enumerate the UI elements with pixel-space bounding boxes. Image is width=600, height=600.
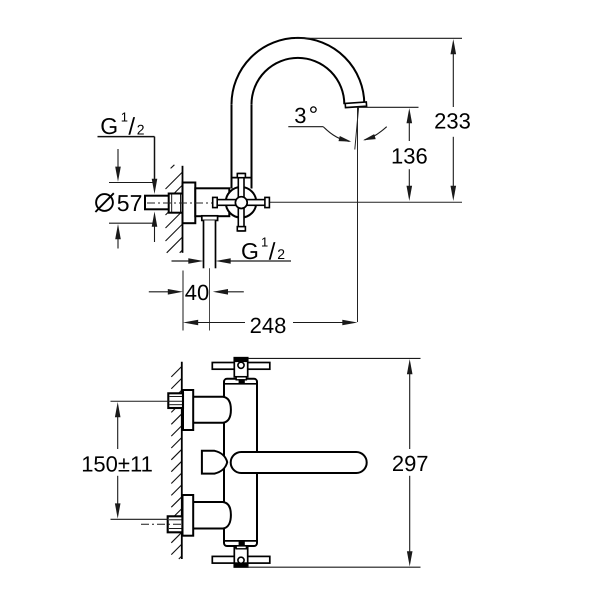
dimension 150+-11	[81, 402, 168, 519]
dimension 40	[149, 271, 244, 331]
svg-text:G: G	[100, 113, 118, 139]
svg-text:150±11: 150±11	[81, 452, 153, 477]
gooseneck spout arc	[232, 38, 365, 104]
valve bonnet circle	[226, 187, 257, 218]
valve body (side view)	[195, 188, 229, 216]
inlet center line	[147, 202, 225, 204]
valve center line	[270, 201, 463, 203]
spout center line	[357, 108, 359, 323]
cross handle hub	[235, 197, 247, 209]
label G 1/2 outlet thread	[172, 234, 292, 265]
svg-text:297: 297	[392, 451, 429, 476]
svg-text:G: G	[241, 238, 259, 264]
svg-text:1: 1	[121, 109, 128, 124]
tilted stream line	[355, 108, 359, 150]
bottom cross handle (plan)	[212, 546, 269, 567]
bath outlet (plan)	[202, 451, 227, 474]
wall flange (side view)	[183, 183, 196, 224]
label G 1/2 inlet thread	[98, 109, 158, 194]
dimension 248	[183, 313, 358, 338]
lower union center line	[141, 523, 183, 525]
wall hatching (plan view)	[171, 366, 182, 559]
svg-text:248: 248	[250, 313, 287, 338]
upper wall flange (plan)	[183, 390, 193, 430]
svg-text:2: 2	[137, 121, 145, 137]
top handle index tick	[239, 379, 245, 383]
dimension 233	[295, 38, 471, 201]
wall line (plan view)	[181, 362, 183, 559]
spout aerator tip	[345, 102, 366, 108]
cross handle horizontal bar	[213, 197, 270, 207]
dimension 136	[357, 107, 428, 201]
top cross handle (plan)	[212, 358, 269, 380]
upper union center line	[111, 400, 183, 402]
wall hatching (side view)	[166, 165, 183, 253]
svg-text:1: 1	[261, 234, 268, 249]
outlet collar	[202, 216, 218, 221]
svg-text:233: 233	[434, 109, 471, 134]
svg-text:136: 136	[391, 144, 428, 169]
threaded inlet stub	[145, 196, 169, 210]
G 1/2 thread lower arrow	[152, 212, 158, 243]
outlet pipe center line	[209, 268, 211, 330]
label D57	[95, 190, 142, 216]
svg-text:3: 3	[294, 103, 306, 128]
cross handle vertical bar	[237, 174, 245, 231]
dimension 297	[247, 358, 429, 567]
lower wall flange (plan)	[183, 495, 194, 536]
spout tube joint line	[233, 177, 252, 179]
dimension D57 arrows	[109, 149, 156, 249]
upper union horn	[193, 397, 231, 423]
svg-text:2: 2	[277, 246, 285, 262]
svg-text:40: 40	[185, 280, 209, 305]
swivel spout (plan)	[231, 452, 367, 473]
wall line (side view)	[182, 166, 184, 253]
lower union horn	[193, 502, 231, 529]
lower hex union nut	[168, 516, 183, 532]
angle 3 deg annotation	[288, 102, 386, 142]
svg-text:57: 57	[117, 190, 143, 216]
outlet pipe	[204, 220, 216, 268]
upper hex union nut	[168, 393, 183, 408]
svg-text:°: °	[309, 102, 319, 129]
faucet body (plan view)	[224, 379, 257, 546]
bottom handle index tick	[239, 541, 245, 545]
inlet hex nipple	[169, 194, 183, 213]
spout riser tube	[232, 103, 252, 189]
